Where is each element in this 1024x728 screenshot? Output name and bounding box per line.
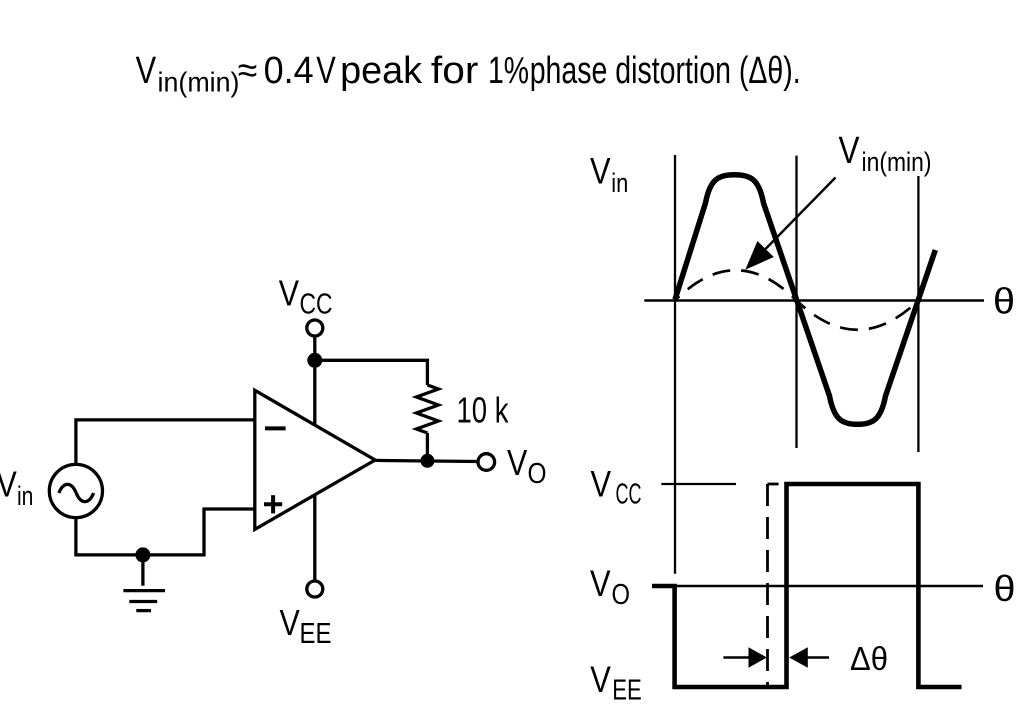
wire from op-amp to VEE terminal bbox=[313, 495, 316, 581]
svg-text:Δθ: Δθ bbox=[850, 641, 888, 678]
junction dot at output node bbox=[420, 454, 434, 468]
Vin axis label (top graph) bbox=[590, 150, 628, 198]
wire from resistor bottom to output node bbox=[426, 433, 429, 460]
junction dot on VCC wire bbox=[307, 353, 322, 368]
title text bbox=[136, 50, 801, 98]
svg-text:≈: ≈ bbox=[238, 50, 257, 92]
wire from source bottom to ground junction bbox=[76, 518, 143, 555]
svg-text:V: V bbox=[0, 464, 17, 505]
projection line at 0 deg bbox=[674, 155, 676, 574]
VCC level label (bottom graph) bbox=[591, 463, 642, 511]
svg-text:V: V bbox=[316, 50, 336, 92]
wire from op-amp output to Vo terminal bbox=[375, 460, 478, 461]
svg-text:in: in bbox=[17, 481, 33, 511]
svg-text:10 k: 10 k bbox=[457, 390, 510, 431]
svg-text:O: O bbox=[612, 579, 631, 611]
svg-text:V: V bbox=[136, 50, 157, 92]
VEE level label (bottom graph) bbox=[590, 658, 642, 707]
Vo axis label (bottom graph) bbox=[590, 562, 630, 611]
VEE label bbox=[280, 602, 332, 650]
svg-text:EE: EE bbox=[300, 618, 332, 650]
svg-text:0.4: 0.4 bbox=[264, 50, 314, 92]
node Vin label bbox=[0, 464, 33, 512]
svg-text:in(min): in(min) bbox=[158, 67, 240, 98]
projection line at 360 deg bbox=[917, 176, 919, 452]
ground bbox=[123, 555, 165, 611]
svg-text:V: V bbox=[590, 562, 611, 604]
resistor 10 k bbox=[416, 385, 438, 433]
svg-text:CC: CC bbox=[300, 289, 333, 321]
svg-text:EE: EE bbox=[612, 675, 642, 707]
junction dot at ground node bbox=[135, 547, 150, 562]
op-amp U1 bbox=[255, 390, 375, 529]
svg-text:θ: θ bbox=[993, 281, 1015, 322]
inverting input minus sign bbox=[265, 426, 286, 430]
wire from junction to op-amp noninverting input bbox=[143, 509, 255, 555]
Vin(min) sine dashed bbox=[675, 270, 918, 330]
theta axis (top graph) bbox=[644, 299, 984, 301]
VCC level tick bbox=[661, 483, 736, 485]
svg-text:CC: CC bbox=[616, 479, 642, 511]
svg-text:in: in bbox=[611, 168, 628, 198]
VCC terminal circle bbox=[307, 320, 323, 336]
theta axis (bottom graph) bbox=[675, 585, 983, 587]
Vin sine waveform bold bbox=[675, 175, 935, 424]
svg-text:for: for bbox=[431, 50, 479, 92]
svg-text:V: V bbox=[590, 150, 611, 192]
node Vo label bbox=[507, 442, 547, 490]
Vo terminal circle bbox=[478, 454, 495, 471]
svg-text:V: V bbox=[279, 272, 300, 313]
noninverting input plus sign bbox=[264, 495, 282, 513]
svg-text:V: V bbox=[839, 130, 861, 172]
svg-text:peak: peak bbox=[340, 50, 423, 92]
svg-text:in(min): in(min) bbox=[862, 147, 932, 177]
svg-text:phase distortion (Δθ).: phase distortion (Δθ). bbox=[530, 50, 801, 92]
svg-text:1%: 1% bbox=[488, 50, 529, 92]
wire from VCC terminal to op-amp supply pin bbox=[313, 337, 316, 426]
VEE terminal circle bbox=[307, 581, 323, 597]
delta-theta arrow pointing right bbox=[723, 647, 767, 667]
Vo square wave bold bbox=[652, 484, 962, 687]
VCC label bbox=[279, 272, 333, 320]
svg-text:V: V bbox=[590, 658, 611, 700]
delta-theta arrow pointing left bbox=[789, 647, 829, 667]
svg-text:V: V bbox=[280, 602, 301, 643]
svg-text:V: V bbox=[591, 463, 612, 505]
wire from source top to op-amp inverting input bbox=[76, 420, 255, 465]
Vin(min) label bbox=[839, 130, 932, 177]
arrow pointing to Vin(min) curve bbox=[745, 178, 835, 270]
source V1 AC sine source bbox=[49, 464, 102, 517]
svg-text:O: O bbox=[528, 458, 547, 490]
wire from VCC node to resistor top bbox=[315, 360, 428, 385]
svg-text:V: V bbox=[507, 442, 528, 483]
svg-text:θ: θ bbox=[994, 568, 1016, 609]
projection line at 180 deg bbox=[795, 156, 797, 448]
ideal switching edge dashed bbox=[768, 483, 779, 486]
